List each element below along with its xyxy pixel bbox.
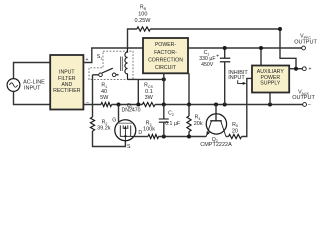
svg-text:OUTPUT: OUTPUT [294, 39, 317, 45]
svg-text:0.25W: 0.25W [135, 18, 152, 24]
svg-text:G: G [112, 117, 116, 123]
transistor Q1 body [115, 120, 136, 141]
svg-text:CMPT2222A: CMPT2222A [200, 142, 232, 148]
junction aux supply return [268, 103, 272, 107]
wire bottom row b [159, 136, 207, 138]
label R1 value 40 [101, 89, 107, 95]
label Q2 [212, 137, 218, 143]
resistor RCS [142, 102, 155, 106]
svg-text:D: D [138, 130, 142, 136]
junction C1 bottom [223, 103, 227, 107]
svg-text:CIRCUIT: CIRCUIT [155, 65, 177, 71]
label RCS value 0.1 [145, 89, 153, 95]
wire inhibit riser [242, 78, 253, 136]
label AC-LINE INPUT [23, 80, 45, 92]
wire Q1 drain lead [131, 135, 134, 137]
label DN2470 [121, 108, 140, 114]
resistor RB [137, 27, 150, 31]
junction R4 bottom [187, 135, 191, 139]
svg-text:S1: S1 [97, 54, 102, 60]
resistor R2 [90, 117, 94, 131]
resistor R3 [148, 134, 159, 138]
svg-text:20: 20 [232, 128, 238, 134]
inhibit pointer arrow [238, 80, 247, 85]
wire Q1 source lead [124, 136, 126, 141]
svg-text:R5: R5 [232, 122, 238, 128]
wire Q2 collector to R5 [226, 136, 229, 138]
wire Q2 base drop [215, 105, 217, 121]
svg-text:0.1: 0.1 [145, 89, 153, 95]
resistor R5 [229, 134, 242, 138]
resistor R1 [101, 102, 112, 106]
label RB [140, 5, 147, 11]
wire contact left lead [93, 74, 99, 76]
junction R4 top [187, 103, 191, 107]
wire contact right lead [116, 74, 119, 76]
wire pfc output line [188, 47, 302, 49]
wire aux bottom drop [269, 93, 271, 105]
svg-text:40: 40 [101, 89, 107, 95]
wire S1 left drop [92, 75, 94, 117]
svg-text:OUTPUT: OUTPUT [292, 95, 315, 101]
svg-text:−: − [86, 100, 89, 106]
svg-text:INPUT: INPUT [24, 85, 41, 91]
label - rectifier output [86, 100, 89, 106]
relay contact left [99, 73, 103, 77]
terminal Vpfc output [302, 46, 306, 50]
junction coil return [136, 103, 140, 107]
svg-text:S: S [127, 144, 131, 150]
svg-text:RECTIFIER: RECTIFIER [53, 88, 81, 94]
label R3 value 100k [143, 127, 155, 133]
wire R2 to source [93, 131, 126, 147]
wire ac top [14, 63, 51, 79]
terminal aux plus [302, 67, 311, 73]
label C1 [204, 50, 210, 56]
label S source [127, 144, 131, 150]
label C1 value 330uF [199, 56, 215, 62]
wire top rail left segment [128, 29, 137, 48]
transistor Q1 internals [118, 123, 133, 137]
label R5 [232, 122, 238, 128]
svg-text:0.1 µF: 0.1 µF [165, 121, 180, 127]
wire Q1 gate drop [118, 105, 120, 122]
svg-text:R4: R4 [195, 115, 201, 121]
label S1 [97, 54, 102, 60]
label Vaux output [292, 90, 315, 101]
wire rectifier plus riser [83, 48, 143, 63]
wire mid rail segment b [112, 104, 143, 106]
relay blade [102, 68, 113, 73]
svg-text:INPUT: INPUT [59, 70, 75, 76]
label R2 [102, 120, 108, 126]
wire top rail right segment [150, 29, 296, 69]
junction Q2 base [214, 103, 218, 107]
resistor R4 [187, 105, 191, 137]
label + rectifier output [85, 57, 88, 63]
svg-text:CORRECTION: CORRECTION [148, 58, 183, 64]
svg-text:100: 100 [138, 11, 147, 17]
transistor Q2 body [206, 114, 226, 134]
svg-text:FACTOR-: FACTOR- [154, 50, 177, 56]
relay coil L1 [125, 48, 128, 79]
label C2 value 0.1uF [165, 121, 180, 127]
label C1 plus [216, 54, 219, 60]
label R1 [101, 83, 107, 89]
junction coil pfc pin [162, 77, 166, 81]
svg-text:INPUT: INPUT [228, 75, 245, 81]
relay core bars [121, 57, 123, 72]
svg-text:+: + [216, 54, 219, 60]
svg-text:POWER-: POWER- [155, 42, 177, 48]
label R1 rating 5W [100, 95, 109, 101]
label D [138, 130, 142, 136]
svg-text:DN2470: DN2470 [121, 108, 140, 114]
svg-text:AND: AND [61, 82, 72, 88]
junction aux plus [294, 67, 298, 71]
svg-text:−: − [308, 102, 311, 108]
transistor Q2 internals [206, 121, 226, 137]
junction top rail corner [278, 27, 282, 31]
label RB rating 0.25W [135, 18, 152, 24]
label G [112, 117, 116, 123]
svg-text:39.2k: 39.2k [97, 126, 111, 132]
svg-text:+: + [309, 67, 312, 73]
label CMPT2222A [200, 142, 232, 148]
relay enclosure S1 dashed box [89, 51, 133, 79]
svg-text:RB: RB [140, 5, 147, 11]
label R3 [146, 121, 152, 127]
label R4 value 20k [194, 121, 203, 127]
label INHIBIT INPUT [228, 70, 248, 81]
wire mid rail segment a [83, 104, 101, 106]
wire mid rail segment c [155, 104, 303, 106]
wire ac bottom [14, 91, 51, 104]
ac source V1 [7, 79, 20, 92]
svg-text:SUPPLY: SUPPLY [260, 81, 281, 87]
junction aux input [259, 46, 263, 50]
svg-text:3W: 3W [145, 95, 154, 101]
block power-factor-correction circuit [143, 38, 188, 73]
label R4 [195, 115, 201, 121]
svg-text:FILTER: FILTER [58, 76, 76, 82]
label R2 value 39.2k [97, 126, 111, 132]
label C2 [168, 111, 174, 117]
label Vpfc output [294, 34, 317, 46]
junction R3 C2 [162, 135, 166, 139]
wire Q1 drain to R3 [134, 136, 148, 138]
wire pfc pin c2 [163, 73, 165, 104]
junction C1 top [223, 46, 227, 50]
wire pfc pin right [188, 73, 190, 104]
capacitor C2 [159, 105, 169, 137]
label Q1 [127, 103, 133, 109]
wire aux plus output [289, 68, 302, 70]
wire aux input drop [260, 48, 262, 66]
svg-text:5W: 5W [100, 95, 109, 101]
label RCS rating 3W [145, 95, 154, 101]
junction C2 top [162, 103, 166, 107]
terminal Vaux output [303, 102, 311, 108]
svg-text:100k: 100k [143, 127, 155, 133]
wire coil return [128, 79, 164, 104]
capacitor C1 [220, 48, 230, 105]
svg-text:20k: 20k [194, 121, 203, 127]
relay contact right [112, 73, 116, 77]
block auxiliary power supply [252, 66, 289, 93]
svg-text:C2: C2 [168, 111, 174, 117]
block input filter and rectifier [50, 55, 83, 110]
label C1 rating 450V [201, 62, 214, 68]
svg-text:450V: 450V [201, 62, 214, 68]
junction S1/Q1 node [117, 103, 121, 107]
label R5 value 20 [232, 128, 238, 134]
label RCS [144, 83, 153, 89]
label RB value 100 [138, 11, 147, 17]
